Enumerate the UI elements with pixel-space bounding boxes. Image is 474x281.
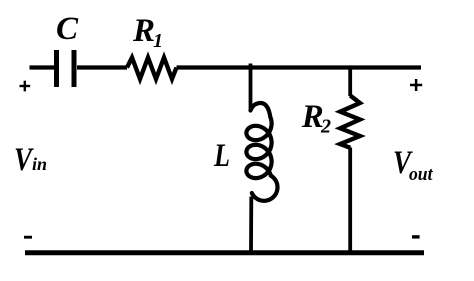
- inductor L: [246, 103, 277, 201]
- bottom rail wire: [25, 250, 424, 255]
- svg-text:out: out: [409, 164, 433, 185]
- node junction inductor top: [249, 64, 253, 71]
- svg-text:in: in: [32, 154, 47, 174]
- wire top-left stub: [30, 65, 55, 69]
- svg-text:C: C: [56, 11, 79, 47]
- svg-text:1: 1: [153, 30, 163, 52]
- resistor R1: [127, 58, 177, 80]
- svg-text:R: R: [132, 13, 155, 49]
- capacitor C: [57, 50, 75, 87]
- wire inductor top: [249, 68, 253, 112]
- plus sign right: [410, 79, 422, 91]
- minus sign right: [412, 235, 420, 238]
- resistor R2: [340, 96, 360, 148]
- minus sign left: [24, 236, 32, 239]
- plus sign left: [20, 81, 31, 92]
- wire cap to R1: [77, 65, 127, 69]
- wire top rail R1 to right end: [177, 65, 422, 69]
- svg-text:2: 2: [320, 116, 331, 138]
- svg-text:L: L: [213, 138, 230, 174]
- wire inductor bottom: [249, 197, 253, 253]
- wire R2 bottom: [348, 148, 352, 253]
- wire R2 top: [348, 68, 352, 97]
